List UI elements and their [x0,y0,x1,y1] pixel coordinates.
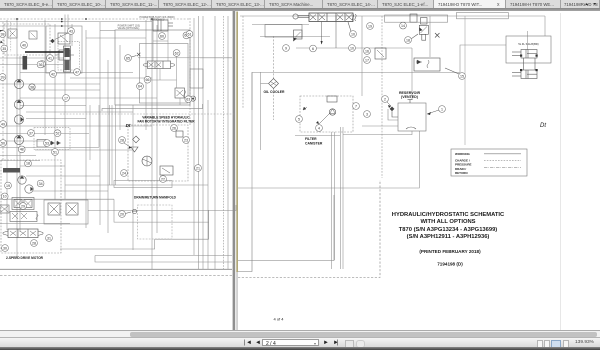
wire h y36 [260,36,330,38]
svg-text:2: 2 [384,97,386,101]
left sheet bottom dashed border [0,275,232,277]
wire v x108 [107,60,109,233]
wire h y135 [295,135,340,137]
pump P1 [14,79,23,88]
wire h y58 [0,57,64,59]
svg-text:28: 28 [32,241,36,245]
callout 10t [348,22,356,37]
svg-text:23: 23 [184,138,188,142]
aux cylinder links [524,58,536,70]
wire v x146 [145,20,147,130]
funnel component [124,143,138,152]
wire h y225 [0,222,70,224]
wire v x100 [99,22,101,225]
manifold outline [95,256,232,263]
wire h y126 to reservoir [362,125,398,127]
svg-text:(PRINTED FEBRUARY 2018): (PRINTED FEBRUARY 2018) [419,249,481,254]
wire v x194 [193,18,195,255]
power shift X mark [137,53,140,56]
wire h y19 dashed [0,18,190,20]
legend sample dashdot [484,167,521,169]
long dashed y114 [60,113,236,115]
power bobtach actuator [293,14,309,19]
wire h y255 [95,255,232,257]
svg-text:49: 49 [1,122,5,126]
svg-text:(OPTIONAL): (OPTIONAL) [150,19,164,22]
label oil cooler [263,90,285,94]
fan motor circle [142,156,152,166]
wire h y141 [0,140,50,142]
svg-text:51: 51 [53,150,57,154]
callout 65 [125,55,137,62]
wire v x215 [214,16,216,269]
callout 60 [159,33,166,40]
svg-text:FILTER: FILTER [305,137,317,141]
svg-text:53: 53 [45,141,49,145]
wire v x65 [65,15,68,200]
svg-text:10: 10 [351,32,355,36]
svg-text:10: 10 [350,46,354,50]
callout 51 [52,149,59,156]
svg-text:40: 40 [22,43,26,47]
callout 43 [68,28,75,35]
callout 21 [195,165,202,172]
svg-text:47: 47 [75,70,79,74]
callout 10b [1,193,8,200]
sub box left of divider [190,69,203,101]
callout 24 [121,170,128,177]
valve block V2 [29,31,37,39]
fan motor enclosure dashed [128,125,188,181]
svg-text:48: 48 [20,148,24,152]
svg-text:37: 37 [29,131,33,135]
wire rails x90-x115 [0,105,115,185]
canister top box [327,96,337,102]
main control valve MV1 dark [64,46,71,72]
power bobtach valve [309,13,356,22]
wire aux left feed [460,45,506,73]
solenoid valve pair SP1 [44,200,88,224]
title block [392,212,505,240]
callout 44 [39,61,46,68]
svg-text:RETURN: RETURN [455,171,468,175]
svg-text:4 of 4: 4 of 4 [273,316,284,321]
right page right border [560,13,562,330]
callout 35 [1,45,8,52]
callout 62 [173,50,180,57]
title printed date [419,249,481,254]
dashed enclosure top-left [4,24,50,55]
wire v x336 [335,15,337,48]
svg-text:65: 65 [126,56,130,60]
label variable speed fan [137,116,195,124]
top-right wire rect [385,14,448,22]
right sheet inner bottom border [238,200,252,272]
drive motor enclosure dashed [1,160,61,253]
wire v x152 [151,18,153,269]
relief valve mid [293,30,302,42]
svg-text:7194198 (D): 7194198 (D) [437,262,463,267]
callout 6 [310,45,317,52]
wire h y72 main [252,72,460,74]
callout 31 [46,235,53,242]
svg-text:(S/N A3PH12911 - A3PH12936): (S/N A3PH12911 - A3PH12936) [407,234,490,240]
legend text WORKING [455,152,470,156]
label reservoir [399,91,421,99]
callout 2 [382,96,389,103]
fan diamond [133,136,140,143]
wire v x260 [260,72,262,150]
wire h y26 [0,25,45,27]
svg-text:4: 4 [318,126,320,130]
fan small box [176,131,183,137]
aux cylinder C1 [512,50,538,59]
wire reservoir drain [343,131,412,135]
svg-text:WITH ALL OPTIONS: WITH ALL OPTIONS [420,219,475,225]
callout 26 [171,125,178,132]
svg-text:29: 29 [21,204,25,208]
callout 30 [2,245,9,252]
callout 61 [186,31,193,38]
svg-text:39: 39 [1,75,5,79]
wire h y191 [33,190,108,192]
svg-text:FAN MOTOR W/ INTEGRATED FILTER: FAN MOTOR W/ INTEGRATED FILTER [137,119,195,123]
callout 20 [119,211,131,218]
label power shift valve [118,24,141,30]
legend box [451,149,527,176]
spring valve SV1 [55,50,74,60]
wire v x340 pair [341,127,344,269]
valve assembly VA50 [34,128,70,150]
callout 3 [364,111,371,118]
power shift big box [115,30,190,105]
right sheet dashed bottom border [238,180,380,278]
wire h y118 [26,118,86,120]
X mark [435,33,440,38]
valve cluster 15 [414,58,440,71]
svg-text:36: 36 [39,63,43,67]
callout 18c [25,160,32,167]
wire h y199 [0,198,114,200]
wire h y57.8 right [200,57,232,59]
callout 18 [5,182,12,189]
wire v x133 [132,105,134,250]
wire h y210 to right page [88,205,236,211]
svg-text:21: 21 [196,166,200,170]
svg-text:(VENTED): (VENTED) [401,95,419,99]
callout 28b [31,240,38,247]
manifold top box [114,181,172,188]
relief valve RV1 [58,33,70,44]
label aux couplers [518,42,538,46]
svg-text:38: 38 [1,32,5,36]
wire v x430 [429,16,431,57]
svg-text:17: 17 [64,96,68,100]
callout 63 [185,96,192,103]
label power bobtach valve [139,16,174,22]
svg-text:18: 18 [26,162,30,166]
reservoir inlet elbow [388,109,398,120]
callout 18r [405,34,418,43]
wire h y126 left [0,125,152,127]
svg-text:41: 41 [48,56,52,60]
wire h y78 [70,77,152,79]
svg-text:OIL COOLER: OIL COOLER [263,90,285,94]
power shift inner wires [138,31,200,105]
svg-text:10: 10 [3,195,7,199]
highlighted wire (olive) along right page left edge [236,12,238,331]
strainer S1 [390,107,398,118]
junction dots x62 [16,18,153,27]
callout 53 [44,140,51,147]
svg-text:24: 24 [122,171,126,175]
wire v x228 [227,16,229,269]
staircase wire [114,199,209,222]
wire v x198 [197,16,199,269]
left edge motor block [0,22,11,52]
label filter canister [305,137,323,146]
pump P4 [14,135,23,144]
power bobtach cylinder [153,20,173,31]
pump P3 [14,115,23,124]
oil cooler diamond [269,79,279,89]
legend sample solid [484,153,521,155]
drive motor valve cluster A [12,198,34,210]
wire h y38 [86,37,146,39]
wire v x252 [251,72,253,200]
outer box bottom [102,104,203,111]
diamond check [50,33,69,44]
wire v x271 oil cooler line [273,36,275,120]
wire h y64 [0,64,63,66]
callout 67 [183,32,190,39]
callout 1 [439,106,446,113]
wire h y98 [20,97,157,99]
wire v x45 [44,20,46,135]
svg-text:42: 42 [51,72,55,76]
svg-text:63: 63 [186,98,190,102]
callout 17 [364,57,371,64]
svg-text:CANISTER: CANISTER [305,142,323,146]
wire v x203 [202,16,204,269]
callout 7 [353,103,360,110]
callout 42 [50,71,57,78]
wire h y160 [0,160,40,162]
staircase wire 3 [60,239,209,249]
wire h y24 [252,24,309,26]
left sheet bottom border [0,268,232,270]
callout 4 [316,125,323,132]
directional valve DV row [3,229,43,238]
svg-text:64: 64 [138,85,142,89]
node Dt left [126,123,131,128]
pump P2 [14,100,23,109]
svg-text:9: 9 [285,46,287,50]
svg-text:Dt: Dt [540,123,546,129]
power shift spool valve [144,61,175,69]
drive motor valve cluster B [0,205,38,222]
aux box outline [506,36,551,63]
valve block V1 top-left [8,29,17,38]
callout 47 [74,69,81,76]
wire v x72 [71,24,73,46]
fan valve [160,166,173,175]
svg-text:30: 30 [3,246,7,250]
callout 2 arrow [387,102,391,108]
wire h y21.5 [0,21,152,23]
wire v x382 dashed [381,16,383,178]
wire v x20 [19,56,21,232]
svg-text:43: 43 [69,29,73,33]
wire h y16 top [240,15,545,17]
svg-text:38: 38 [30,85,34,89]
wire h y176 [26,175,100,177]
callout 15 [445,68,465,79]
wire v x190 dashed [189,18,191,125]
wire h y133 [0,133,89,135]
svg-text:WORKING: WORKING [455,152,470,156]
svg-text:62: 62 [175,51,179,55]
wire h y166 [20,165,65,167]
manifold dashed box [138,205,173,239]
svg-text:16: 16 [365,49,369,53]
callout 36 [37,61,44,68]
svg-text:2-SPEED DRIVE MOTOR: 2-SPEED DRIVE MOTOR [6,256,44,260]
svg-text:20: 20 [120,212,124,216]
page divider [233,11,236,331]
wire v x157 [156,25,158,233]
svg-text:19: 19 [6,184,10,188]
svg-text:52: 52 [56,132,60,136]
filter canister dashed enclosure [300,96,353,132]
wire h y30 [100,30,115,32]
callout 14 [400,22,407,29]
svg-text:14: 14 [401,24,405,28]
svg-text:5L FL S AUX(BD): 5L FL S AUX(BD) [518,42,538,46]
svg-text:1: 1 [441,107,443,111]
callout 28 [119,137,126,144]
callout 50 [0,140,6,147]
wire h y84 [0,83,100,85]
svg-text:34: 34 [39,182,43,186]
callout 49 [0,121,6,128]
svg-text:18: 18 [406,38,410,42]
legend sample dashed [484,160,521,162]
callout 9 [283,45,290,52]
svg-text:31: 31 [47,236,51,240]
svg-text:5: 5 [298,117,300,121]
callout 23 [183,137,190,144]
callout 5 [296,116,303,123]
svg-text:26: 26 [172,126,176,130]
top-right wire loop 2 [457,13,509,19]
wire reservoir return long [238,131,419,188]
filter F1 dark hatched bar [23,56,28,70]
wire v x362 [361,16,363,96]
callout 29 [20,203,27,210]
callout 38 [0,31,6,38]
svg-text:19: 19 [368,24,372,28]
wire h y150 [35,149,133,151]
thick black supply line [25,51,64,53]
wire v x3 [2,22,4,160]
right sheet bottom border [238,195,334,261]
callout 17L [63,95,70,102]
wire v x465 [464,16,466,145]
callout 64 [137,83,144,90]
svg-text:60: 60 [160,34,164,38]
filter symbol w diamond [419,18,428,41]
wire h y155 [0,155,36,157]
callout 22 [160,176,167,183]
return filter RF hatched horizontal bar [3,168,20,173]
svg-text:35: 35 [2,47,6,51]
oil cooler box corner [251,73,253,111]
wire v x208 [207,100,209,269]
valve drop arrow [321,22,323,45]
node Dt right [540,123,546,129]
callout 1 arrow [427,110,439,115]
wire v x332 filter down pair [332,132,335,269]
callout 52 [54,130,61,137]
label drain/return manifold [134,196,177,200]
aux feed vertical [527,31,529,50]
wire v x7 [6,20,8,230]
svg-text:66: 66 [146,78,150,82]
wire h y72 [20,72,133,74]
callout 48 [18,146,25,153]
callout 40 [21,42,28,49]
svg-text:6: 6 [312,47,314,51]
wire v x545 to aux box [544,16,546,36]
wire v x55 [54,24,56,200]
legend text DRAIN/RETURN [455,167,468,175]
callout 34 [37,180,44,187]
wire v x243 dashed [242,16,244,108]
gauge G1 [29,84,35,90]
motor M1 [18,176,26,184]
callout 19r [367,23,374,30]
callout 10 [349,45,356,52]
svg-text:HYDRAULIC/HYDROSTATIC SCHEMATI: HYDRAULIC/HYDROSTATIC SCHEMATIC [392,212,505,218]
callout 37 [28,130,35,137]
canister check valve [329,109,335,115]
canister bypass arrow [316,113,330,127]
svg-text:Dt: Dt [126,123,131,128]
MV1 dashed enclosure [58,42,79,70]
wire h y48 [296,47,412,49]
title part number [437,262,463,267]
inlet arrow 5 [303,107,307,110]
reservoir R1 [398,100,426,132]
callout 41 [47,55,54,62]
wire v x17 [16,18,18,258]
solid box B1 [46,26,82,73]
svg-text:50: 50 [1,141,5,145]
svg-text:15: 15 [460,74,464,78]
label 2-speed drive motor [6,256,44,260]
power shift pilot valve [175,88,186,98]
small circle near callout 20 [132,209,136,213]
callout 66 [144,76,151,83]
motor M2 [25,185,33,193]
svg-text:17: 17 [365,58,369,62]
power shift inner box [140,44,189,104]
page number 4 of 4 [273,316,284,321]
svg-text:28: 28 [120,138,124,142]
wire h y90 [33,89,100,91]
bobtach pilot box [265,25,302,38]
